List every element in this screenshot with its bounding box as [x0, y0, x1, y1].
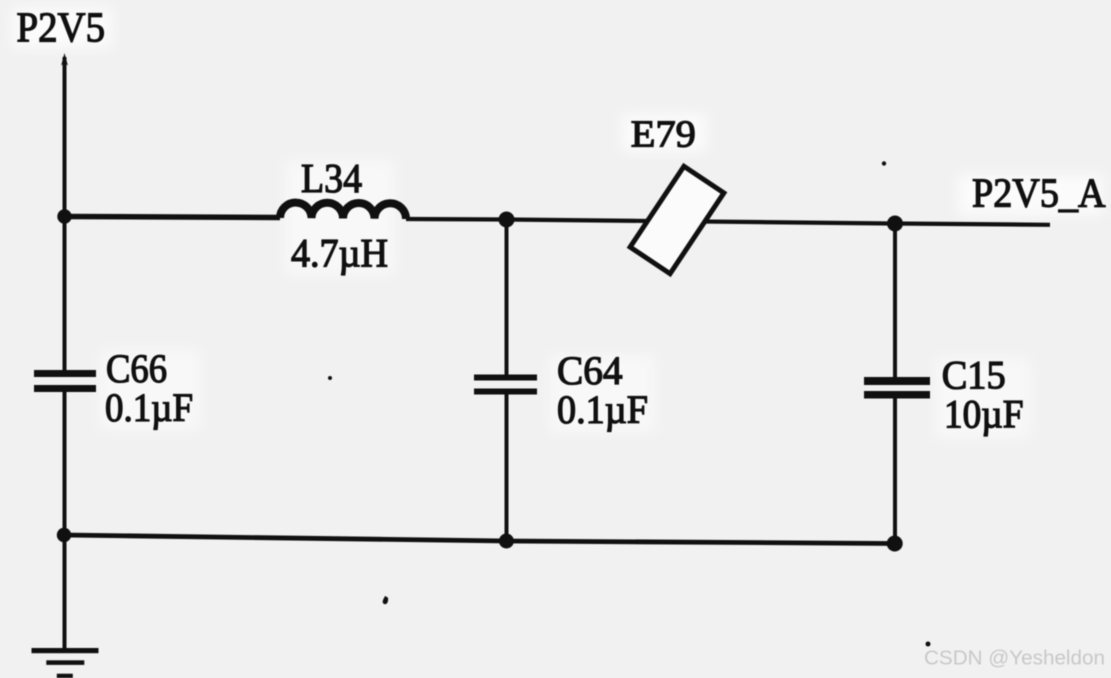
- svg-text:L34: L34: [301, 155, 362, 201]
- svg-text:0.1µF: 0.1µF: [105, 385, 193, 430]
- svg-text:0.1µF: 0.1µF: [557, 387, 648, 432]
- svg-text:10µF: 10µF: [944, 392, 1024, 437]
- svg-text:P2V5: P2V5: [17, 6, 106, 52]
- svg-text:E79: E79: [631, 114, 696, 156]
- svg-text:P2V5_A: P2V5_A: [972, 170, 1106, 216]
- svg-text:CSDN @Yesheldon: CSDN @Yesheldon: [924, 647, 1105, 670]
- svg-text:4.7µH: 4.7µH: [291, 231, 388, 276]
